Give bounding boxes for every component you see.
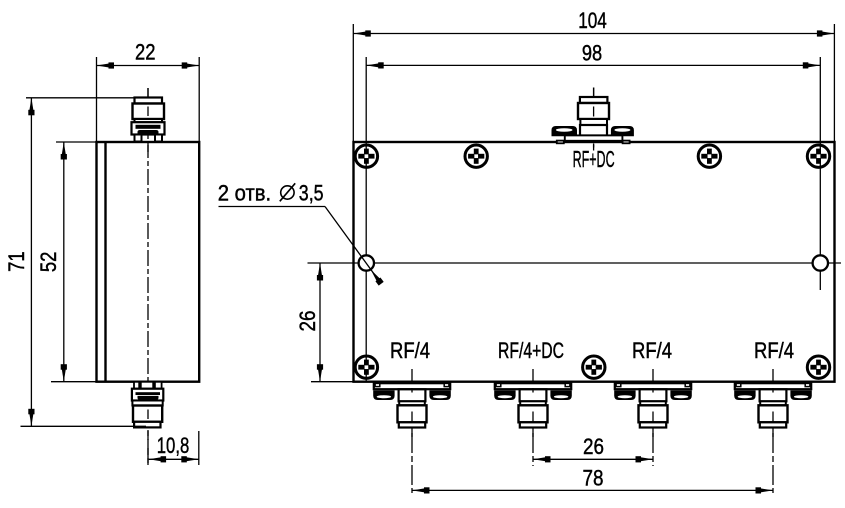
svg-text:98: 98 [582, 40, 602, 65]
RF+DC connector cap [580, 97, 608, 103]
svg-text:78: 78 [583, 466, 604, 491]
screw top 3 [698, 145, 720, 167]
connector 3 [614, 383, 692, 437]
hole left [359, 255, 374, 270]
top RF+DC connector centerline [593, 88, 595, 151]
screw top 2 [465, 145, 487, 167]
connector 4 [734, 383, 812, 437]
RF+DC connector flange plate [565, 135, 623, 140]
svg-text:71: 71 [4, 251, 29, 272]
dimension 26 vertical [295, 263, 354, 382]
top connector centerline (side view) [147, 88, 149, 465]
leader line [325, 207, 381, 284]
svg-text:52: 52 [36, 252, 61, 273]
RF+DC connector leg right [623, 141, 630, 144]
front view body box [354, 142, 835, 382]
leader shelf [219, 206, 326, 208]
RF+DC connector waist [580, 119, 607, 125]
long vertical axis line right column [819, 57, 821, 290]
RF+DC connector nut left [552, 126, 577, 136]
bottom connector nut housing [132, 389, 163, 401]
RF+DC connector nut right [611, 126, 634, 136]
svg-text:RF/4: RF/4 [632, 338, 672, 363]
bottom connector waist [132, 401, 162, 406]
top connector (side view) cap [135, 98, 163, 104]
bottom connector nut dark band [136, 392, 161, 395]
hole right [813, 255, 828, 270]
svg-text:3,5: 3,5 [299, 181, 324, 206]
RF+DC connector lower [580, 125, 607, 136]
screw top 4 [807, 145, 829, 167]
leader arrow [368, 268, 383, 286]
screw bottom 2 [583, 356, 605, 378]
RF+DC connector body [578, 103, 609, 119]
svg-text:2 отв.: 2 отв. [218, 181, 271, 206]
bottom connector legs [134, 382, 139, 389]
top connector centerline dashes overlay [147, 88, 149, 152]
connector 1 centerline [411, 369, 413, 493]
svg-text:10,8: 10,8 [157, 433, 190, 458]
horizontal axis line through holes [308, 262, 842, 264]
dimension 71 [4, 98, 146, 427]
side view body box [97, 142, 200, 382]
connector 2 [494, 383, 572, 437]
dimension 98 [366, 40, 820, 68]
bottom connector body [133, 406, 162, 422]
svg-text:26: 26 [295, 311, 320, 332]
bottom connector centerline dashes overlay [147, 410, 149, 466]
lid seam line [104, 142, 106, 382]
dimension 26 bottom [533, 434, 653, 463]
top connector nut dark band [136, 125, 161, 129]
connector 2 centerline [532, 369, 534, 466]
top connector nut housing [132, 122, 165, 134]
diameter symbol [281, 186, 294, 199]
RF+DC connector leg left [557, 141, 564, 144]
dimension 10,8 [149, 431, 199, 465]
connector 3 centerline [652, 369, 654, 466]
svg-text:22: 22 [135, 40, 156, 65]
dimension 22 [97, 40, 200, 142]
svg-text:RF+DC: RF+DC [573, 146, 615, 172]
dimension 52 [36, 142, 96, 382]
top connector waist [135, 119, 163, 122]
svg-text:RF/4: RF/4 [754, 338, 794, 363]
dimension 104 [353, 8, 834, 141]
top connector leg right [155, 135, 162, 142]
connector 4 centerline [772, 369, 774, 493]
svg-text:104: 104 [578, 8, 607, 33]
top connector nut dome [138, 130, 159, 134]
top connector body [133, 104, 165, 120]
bottom connector cap [134, 422, 160, 428]
long vertical axis line left column [365, 57, 367, 381]
screw top 1 [355, 145, 377, 167]
screw bottom 1 [355, 356, 377, 378]
svg-text:26: 26 [583, 434, 604, 459]
dimension 78 bottom [412, 466, 773, 494]
connector 1 [373, 383, 451, 437]
bottom connector nut dome [138, 396, 159, 400]
top connector leg left [135, 135, 142, 142]
svg-text:RF/4+DC: RF/4+DC [498, 338, 564, 363]
RF+DC centerline dashes overlay [593, 88, 595, 151]
screw bottom 3 [807, 356, 829, 378]
svg-text:RF/4: RF/4 [390, 338, 430, 363]
callout 2 holes d3.5 [218, 181, 384, 286]
